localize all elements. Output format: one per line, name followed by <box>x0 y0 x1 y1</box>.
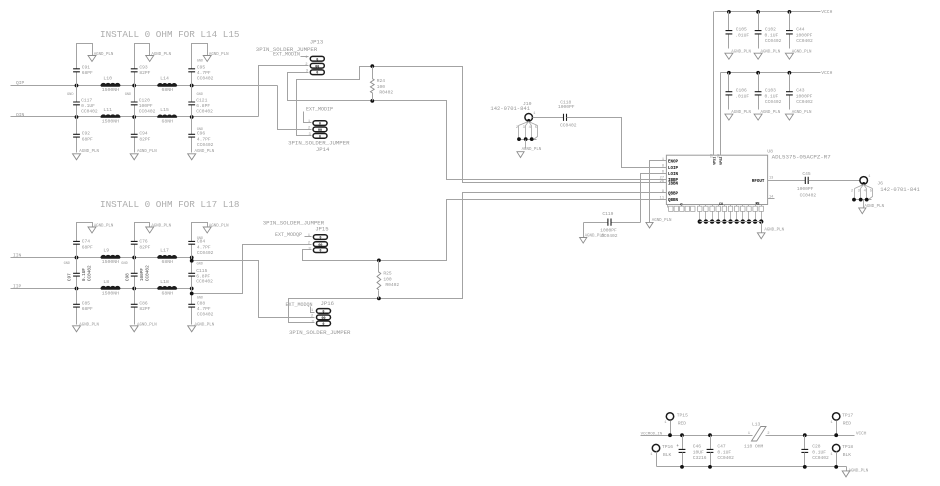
svg-text:RED: RED <box>843 421 852 427</box>
label 3PIN_SOLDER_JUMPER (JP15) <box>263 220 325 227</box>
svg-text:INSTALL 0 OHM FOR L17 L18: INSTALL 0 OHM FOR L17 L18 <box>100 199 239 210</box>
U8 pin 8 LOIP <box>655 165 679 171</box>
svg-text:C115: C115 <box>196 268 207 274</box>
svg-text:82PF: 82PF <box>139 306 150 312</box>
svg-text:1000PF: 1000PF <box>600 227 617 233</box>
svg-text:110 OHM: 110 OHM <box>744 444 764 450</box>
svg-text:RED: RED <box>678 421 687 427</box>
svg-text:LOIP: LOIP <box>668 167 679 171</box>
svg-text:CC0402: CC0402 <box>88 265 93 281</box>
svg-text:CC0402: CC0402 <box>812 455 829 461</box>
svg-text:AGND_PLN: AGND_PLN <box>195 323 215 327</box>
svg-text:AGND_PLN: AGND_PLN <box>792 111 812 115</box>
svg-text:82PF: 82PF <box>139 244 150 250</box>
power rail VCCH (bank1) <box>715 9 833 15</box>
U8 pin 14 stub <box>768 195 775 199</box>
svg-text:BLK: BLK <box>663 452 672 458</box>
U8 pin 26 IBBN <box>655 180 679 186</box>
svg-text:68NH: 68NH <box>161 291 173 297</box>
svg-text:AGND_PLN: AGND_PLN <box>137 150 157 154</box>
solder jumper JP14 <box>313 121 327 139</box>
svg-text:C95: C95 <box>197 64 206 70</box>
wire VCCMOD_IN rail <box>641 435 855 437</box>
svg-text:00: 00 <box>321 317 325 321</box>
svg-text:6.8PF: 6.8PF <box>196 103 210 109</box>
svg-text:3PIN_SOLDER_JUMPER: 3PIN_SOLDER_JUMPER <box>256 46 318 53</box>
svg-text:CC0402: CC0402 <box>197 311 214 317</box>
svg-text:1000PF: 1000PF <box>796 93 813 99</box>
svg-text:1500NH: 1500NH <box>102 87 119 93</box>
U8 pin 11 QBBN <box>655 197 679 203</box>
inductor L17 <box>158 247 177 265</box>
svg-text:68PF: 68PF <box>82 244 93 250</box>
svg-text:68NH: 68NH <box>161 259 173 265</box>
svg-text:C74: C74 <box>82 238 91 244</box>
wire EXT_MODQN hook to JP16 pin1 <box>311 307 315 313</box>
svg-text:0: 0 <box>323 322 325 326</box>
svg-text:L14: L14 <box>160 75 169 81</box>
label 3PIN_SOLDER_JUMPER (JP14) <box>288 140 350 147</box>
svg-text:C43: C43 <box>796 88 805 94</box>
node QIN <box>16 112 25 118</box>
inductor L11 <box>101 107 120 125</box>
U8 pin 1 ENOP <box>655 158 679 164</box>
svg-text:C105: C105 <box>736 26 747 32</box>
U8 bottom-left pins <box>668 203 760 212</box>
svg-text:AGND_PLN: AGND_PLN <box>849 470 869 474</box>
svg-text:00: 00 <box>318 244 322 248</box>
svg-text:C94: C94 <box>139 131 148 137</box>
svg-text:AGND_PLN: AGND_PLN <box>137 323 157 327</box>
op-amp U8 ADL5375 modulator body <box>666 149 831 205</box>
svg-text:AGND_PLN: AGND_PLN <box>209 224 229 228</box>
svg-text:6: 6 <box>662 171 664 175</box>
resistor R25 <box>377 259 399 301</box>
node EXT_MODIN <box>273 51 300 57</box>
capacitor C97 <box>64 258 93 289</box>
svg-text:9: 9 <box>662 190 664 194</box>
capacitor C119 <box>584 211 641 239</box>
svg-text:L18: L18 <box>160 279 169 285</box>
ground AGND_PLN (bottom of C86) <box>130 323 157 331</box>
capacitor C121 <box>188 86 213 117</box>
pin numbers JP14 <box>308 120 312 137</box>
capacitor C92 <box>73 117 93 153</box>
U8 pin 9 QBBP <box>655 190 679 196</box>
svg-text:R24: R24 <box>377 78 386 84</box>
ground AGND_PLN (top of C84) <box>203 224 229 233</box>
wire U8 ground pins to AGND <box>761 222 763 233</box>
svg-text:0: 0 <box>319 249 321 253</box>
svg-text:0.1UF: 0.1UF <box>765 32 779 38</box>
svg-text:0.1UF: 0.1UF <box>812 449 826 455</box>
pin numbers JP16 <box>311 309 315 324</box>
ground AGND_PLN (U8) <box>757 229 784 239</box>
inductor L13 ferrite bead <box>744 421 770 449</box>
svg-text:JP16: JP16 <box>321 300 334 307</box>
svg-text:00: 00 <box>318 129 322 133</box>
capacitor C115 <box>188 258 213 289</box>
svg-text:C3216: C3216 <box>693 455 707 461</box>
svg-text:68PF: 68PF <box>82 306 93 312</box>
ground AGND_PLN (bottom of C92) <box>73 150 100 160</box>
capacitor C118 <box>558 99 577 128</box>
svg-text:R25: R25 <box>383 271 392 277</box>
svg-text:JP13: JP13 <box>310 38 323 45</box>
capacitor C94 <box>131 117 151 153</box>
svg-text:68NH: 68NH <box>161 87 173 93</box>
svg-text:AGND_PLN: AGND_PLN <box>522 148 542 152</box>
pin numbers JP15 <box>308 234 312 251</box>
ground AGND_PLN (top of C74) <box>88 224 114 233</box>
node EXT_MODQP <box>275 232 302 238</box>
capacitor C117 <box>67 86 98 117</box>
svg-text:CC0402: CC0402 <box>796 99 813 105</box>
ground AGND_PLN (top of C91) <box>88 53 114 62</box>
test point TP18 <box>830 444 853 469</box>
svg-text:TP18: TP18 <box>842 444 853 450</box>
svg-text:1500NH: 1500NH <box>102 119 119 125</box>
svg-text:C91: C91 <box>82 64 91 70</box>
svg-text:GND: GND <box>64 262 70 266</box>
svg-text:GND: GND <box>67 93 73 97</box>
svg-text:100PF: 100PF <box>139 103 153 109</box>
svg-text:VCCH: VCCH <box>821 70 832 76</box>
svg-text:0.1UF: 0.1UF <box>81 103 95 109</box>
solder jumper JP15 <box>313 235 327 253</box>
node VCCMOD_IN <box>641 432 663 436</box>
svg-text:26: 26 <box>660 180 664 184</box>
ground AGND_PLN (top of C76) <box>146 224 172 233</box>
svg-text:IBBN: IBBN <box>668 183 679 187</box>
svg-text:C46: C46 <box>693 443 702 449</box>
svg-text:0.1UF: 0.1UF <box>717 449 731 455</box>
svg-text:AGND_PLN: AGND_PLN <box>792 50 812 54</box>
svg-text:142-0701-841: 142-0701-841 <box>490 105 530 112</box>
svg-text:GND: GND <box>197 237 203 241</box>
wire QIN to JP13 pin2 <box>259 66 309 117</box>
svg-text:AGND_PLN: AGND_PLN <box>585 235 605 239</box>
svg-text:AGND_PLN: AGND_PLN <box>195 150 215 154</box>
capacitor C95 <box>188 44 213 86</box>
svg-text:AGND_PLN: AGND_PLN <box>652 219 672 223</box>
capacitor C74 <box>73 223 93 258</box>
node VCCH (filter out) <box>856 431 867 436</box>
svg-text:ADL5375-05ACPZ-R7: ADL5375-05ACPZ-R7 <box>772 153 832 160</box>
svg-text:AGND_PLN: AGND_PLN <box>731 111 751 115</box>
ground AGND_PLN (top of C93) <box>146 53 172 62</box>
svg-text:00: 00 <box>315 65 319 69</box>
label 3PIN_SOLDER_JUMPER (JP16) <box>289 329 351 336</box>
svg-text:CC0402: CC0402 <box>81 108 98 114</box>
svg-text:R0402: R0402 <box>379 90 393 96</box>
svg-text:CC0402: CC0402 <box>145 265 150 281</box>
svg-text:GND: GND <box>197 263 203 267</box>
svg-text:L10: L10 <box>103 75 112 81</box>
svg-text:CC0402: CC0402 <box>717 455 734 461</box>
capacitor C46 <box>676 433 707 468</box>
pin numbers JP13 <box>305 56 309 74</box>
svg-text:4.7PF: 4.7PF <box>197 306 211 312</box>
svg-text:C28: C28 <box>812 443 821 449</box>
svg-text:ENOP: ENOP <box>668 161 679 165</box>
svg-text:6.8PF: 6.8PF <box>196 273 210 279</box>
capacitor C76 <box>131 223 151 258</box>
junction <box>190 84 194 119</box>
svg-text:GND: GND <box>121 262 127 266</box>
ground AGND_PLN (C102) <box>754 50 781 59</box>
svg-text:TP17: TP17 <box>842 413 853 419</box>
ground AGND_PLN (top of C95) <box>203 53 229 62</box>
svg-text:CC0402: CC0402 <box>796 38 813 44</box>
wire QIP to JP14 pin2 <box>278 86 312 130</box>
capacitor C105 <box>726 10 750 49</box>
svg-text:L15: L15 <box>160 107 169 113</box>
svg-text:82PF: 82PF <box>139 70 150 76</box>
svg-text:+: + <box>676 444 679 449</box>
svg-text:68NH: 68NH <box>161 119 173 125</box>
capacitor C93 <box>131 44 151 86</box>
svg-text:CC0402: CC0402 <box>197 250 214 256</box>
ground AGND_PLN (filter) <box>842 470 868 477</box>
label 3PIN_SOLDER_JUMPER (JP13) <box>256 46 318 53</box>
svg-text:GND: GND <box>125 93 131 97</box>
svg-text:100: 100 <box>383 276 392 282</box>
label JP13 <box>310 38 323 45</box>
wire JP14 pin3 to R24 top net <box>297 67 655 183</box>
wire U8 pin1 to C119 node <box>650 161 655 223</box>
svg-text:CC0402: CC0402 <box>139 108 156 114</box>
svg-text:1000PF: 1000PF <box>558 104 575 110</box>
capacitor C120 <box>125 86 156 117</box>
svg-text:CC0402: CC0402 <box>560 122 577 128</box>
svg-text:AGND_PLN: AGND_PLN <box>209 53 229 57</box>
svg-text:L11: L11 <box>103 107 112 113</box>
svg-text:JP14: JP14 <box>316 146 330 153</box>
svg-text:QBBP: QBBP <box>668 192 679 196</box>
capacitor C85 <box>73 289 93 325</box>
inductor L10 <box>101 75 120 93</box>
svg-text:EXT_MODQN: EXT_MODQN <box>286 302 313 308</box>
note: INSTALL 0 OHM FOR L14 L15 <box>100 29 239 40</box>
wire JP13 pin3 to R24 bottom net <box>288 73 655 180</box>
svg-text:L8: L8 <box>103 279 109 285</box>
svg-text:VPS2: VPS2 <box>720 157 724 165</box>
svg-text:1000PF: 1000PF <box>797 186 814 192</box>
svg-text:RE: RE <box>756 203 760 207</box>
ground AGND_PLN (J6) <box>859 205 885 214</box>
junction IIP tap <box>190 292 194 296</box>
capacitor C103 <box>755 71 782 110</box>
svg-text:1000PF: 1000PF <box>796 32 813 38</box>
node EXT_MODQN <box>286 302 313 308</box>
svg-text:C119: C119 <box>602 211 613 217</box>
U8 pin 13 RFOUT <box>752 177 782 184</box>
svg-text:VCCH: VCCH <box>821 9 832 15</box>
svg-text:10UF: 10UF <box>693 449 704 455</box>
svg-text:CC0402: CC0402 <box>196 108 213 114</box>
ground AGND_PLN (C43) <box>785 111 812 120</box>
svg-text:C102: C102 <box>765 26 776 32</box>
wire JP16 pin3 to R25 bottom net <box>289 193 655 323</box>
capacitor C102 <box>755 10 782 49</box>
wire EXT_MODQP to JP15 pin1 <box>305 236 312 238</box>
svg-text:TP16: TP16 <box>662 444 673 450</box>
capacitor C45 <box>797 171 816 199</box>
inductor L18 <box>158 279 177 297</box>
capacitor C28 <box>801 433 829 468</box>
U8 pin 24 VPS2 <box>717 73 724 165</box>
svg-text:100PF: 100PF <box>140 268 145 282</box>
ground AGND_PLN (C103) <box>754 111 781 120</box>
ground AGND_PLN (bottom of C94) <box>130 150 157 160</box>
ground AGND_PLN (J10) <box>517 148 542 157</box>
svg-text:.01UF: .01UF <box>735 93 749 99</box>
svg-text:68PF: 68PF <box>82 70 93 76</box>
svg-text:4.7PF: 4.7PF <box>197 137 211 143</box>
svg-text:LOIN: LOIN <box>668 173 679 177</box>
power rail VCCH (bank2) <box>721 70 833 76</box>
svg-text:82PF: 82PF <box>139 137 150 143</box>
capacitor C86 <box>131 289 151 325</box>
svg-text:C88: C88 <box>197 301 206 307</box>
svg-text:68PF: 68PF <box>82 137 93 143</box>
svg-text:C45: C45 <box>802 171 811 177</box>
svg-text:0: 0 <box>319 236 321 240</box>
capacitor C91 <box>73 44 93 86</box>
junction <box>132 256 136 291</box>
svg-text:1500NH: 1500NH <box>102 291 119 297</box>
svg-text:L17: L17 <box>160 247 169 253</box>
svg-text:GND: GND <box>197 128 203 132</box>
svg-text:C85: C85 <box>82 301 91 307</box>
wire filter ground rail <box>657 466 847 468</box>
wire C45 to J6 <box>809 180 860 182</box>
wire JP15 pin3 to R25 top net <box>303 200 655 261</box>
svg-text:13: 13 <box>769 177 773 181</box>
svg-text:C86: C86 <box>139 301 148 307</box>
junction <box>75 256 79 291</box>
svg-text:C120: C120 <box>139 97 150 103</box>
svg-text:AGND_PLN: AGND_PLN <box>864 205 884 209</box>
capacitor C43 <box>786 71 813 110</box>
svg-text:AGND_PLN: AGND_PLN <box>761 111 781 115</box>
svg-text:0.1UF: 0.1UF <box>82 268 87 282</box>
test point TP15 <box>664 413 688 438</box>
junction <box>190 256 194 291</box>
svg-text:CO: CO <box>719 203 723 207</box>
svg-text:.01UF: .01UF <box>735 32 749 38</box>
wire QIN bus <box>11 116 259 118</box>
junction IIN tap <box>190 259 194 263</box>
svg-text:AGND_PLN: AGND_PLN <box>79 150 99 154</box>
svg-text:C93: C93 <box>139 64 148 70</box>
svg-text:AGND_PLN: AGND_PLN <box>79 323 99 327</box>
U8 bottom ground pins <box>698 205 764 224</box>
capacitor C106 <box>726 71 750 110</box>
capacitor C88 <box>188 289 213 325</box>
svg-text:C103: C103 <box>765 88 776 94</box>
ground AGND_PLN (pin1) <box>646 219 672 228</box>
svg-text:C47: C47 <box>717 443 726 449</box>
resistor R24 <box>370 64 393 103</box>
svg-text:0: 0 <box>316 71 318 75</box>
connector J6 <box>851 175 921 207</box>
U8 pin 27 IBBP <box>655 177 679 183</box>
note: INSTALL 0 OHM FOR L17 L18 <box>100 199 239 210</box>
node IIN <box>13 252 22 258</box>
svg-text:0: 0 <box>319 134 321 138</box>
svg-text:C98: C98 <box>125 273 130 281</box>
inductor L8 <box>101 279 120 297</box>
svg-text:1500NH: 1500NH <box>102 259 119 265</box>
capacitor C47 <box>707 433 735 468</box>
wire C119 right lead to U8 pin3 <box>641 174 655 223</box>
svg-text:AGND_PLN: AGND_PLN <box>151 224 171 228</box>
inductor L15 <box>158 107 177 125</box>
test point TP16 <box>650 444 673 466</box>
svg-text:0: 0 <box>319 122 321 126</box>
wire filter rail to ground <box>846 467 848 471</box>
svg-text:CC0402: CC0402 <box>197 76 214 82</box>
node EXT_MODIP <box>306 106 333 112</box>
label JP16 <box>321 300 334 307</box>
svg-text:EXT_MODQP: EXT_MODQP <box>275 232 302 238</box>
svg-text:RFOUT: RFOUT <box>752 180 765 184</box>
svg-text:EXT_MODIP: EXT_MODIP <box>306 106 333 112</box>
svg-text:AGND_PLN: AGND_PLN <box>731 50 751 54</box>
wire IIN to JP16 pin2 <box>192 261 315 318</box>
U8 pin 6 LOIN <box>655 171 679 177</box>
wire C119 left to ground <box>583 223 585 238</box>
svg-text:R0402: R0402 <box>385 282 399 288</box>
svg-text:1: 1 <box>662 158 664 162</box>
svg-text:4.7PF: 4.7PF <box>197 244 211 250</box>
connector J10 <box>490 101 537 149</box>
svg-text:CC0402: CC0402 <box>196 278 213 284</box>
svg-text:3PIN_SOLDER_JUMPER: 3PIN_SOLDER_JUMPER <box>289 329 351 336</box>
svg-text:AGND_PLN: AGND_PLN <box>94 53 114 57</box>
svg-text:CC0402: CC0402 <box>800 193 817 199</box>
capacitor C44 <box>786 10 813 49</box>
label JP14 <box>316 146 330 153</box>
inductor L9 <box>101 247 120 265</box>
ground AGND_PLN (bottom of C85) <box>73 323 100 331</box>
wire IIP to JP15 pin2 <box>192 245 312 294</box>
wire EXT_MODIP hook to JP14 pin1 <box>304 112 312 123</box>
svg-text:14: 14 <box>769 195 773 199</box>
svg-text:CC0402: CC0402 <box>765 99 782 105</box>
svg-text:C106: C106 <box>736 88 747 94</box>
wire C118 to U8 LOIP <box>567 118 655 168</box>
wire IIP bus <box>11 288 192 290</box>
svg-text:C44: C44 <box>796 26 805 32</box>
svg-text:4.7PF: 4.7PF <box>197 70 211 76</box>
wire EXT_MODIN to JP13 pin1 <box>301 56 309 58</box>
svg-text:0.1UF: 0.1UF <box>765 93 779 99</box>
ground AGND_PLN (bottom of C88) <box>188 323 215 331</box>
ground AGND_PLN (C105) <box>725 50 752 59</box>
svg-text:L9: L9 <box>103 247 109 253</box>
svg-text:11: 11 <box>660 197 664 201</box>
svg-text:100: 100 <box>377 84 386 90</box>
capacitor C84 <box>188 223 213 258</box>
svg-text:C117: C117 <box>81 97 92 103</box>
svg-text:VCCH: VCCH <box>856 431 867 436</box>
svg-text:GND: GND <box>197 60 203 64</box>
svg-text:C76: C76 <box>139 238 148 244</box>
svg-text:L13: L13 <box>752 421 761 427</box>
